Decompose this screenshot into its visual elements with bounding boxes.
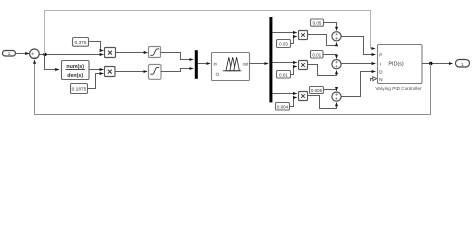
sum S2 [332,32,341,41]
constant 0.004 [276,103,290,111]
inport In1 [3,51,16,57]
wire Product5 to Sum4 bottom [308,96,337,109]
wire error branch up over top to PID u input [45,11,376,55]
svg-text:0.01: 0.01 [312,52,321,57]
product P2 [105,67,116,77]
transfer fcn num(s)/den(s) [62,61,90,80]
wire Product2 to Saturation2 [115,71,147,73]
svg-text:Varying PID Controller: Varying PID Controller [375,86,422,91]
svg-text:0.1875: 0.1875 [72,87,87,93]
wire Product4 to Sum3 bottom [308,65,337,76]
mux Mux [195,50,198,79]
sum S3 [332,60,341,69]
constant 0.03 [277,40,291,48]
wire Product3 to Sum2 bottom [308,35,337,46]
outport Out1 [456,60,470,68]
node junction dot 2 [429,62,432,65]
wire feedback loop [35,60,431,115]
wire 0.05 to Sum2 top [324,23,337,31]
svg-text:0.005: 0.005 [311,88,323,93]
svg-text:out: out [242,61,249,66]
wire TF to Product2 [89,69,103,71]
wire 0.01 lower to Product4 [291,67,297,75]
wire Fuzzy to Demux [250,63,269,65]
wire 0.005 to Sum4 top [324,90,337,91]
wire PID out to outport [422,63,453,65]
node junction dot [43,53,46,56]
svg-text:0.05: 0.05 [313,21,322,26]
sum S1 (error) [30,49,40,59]
wire Demux out3 to Product5 [272,93,296,95]
svg-text:I: I [380,61,381,66]
wire 0.004 to Product5 [290,98,297,107]
unconnected N port stub [371,77,377,81]
product P4 [299,61,308,70]
svg-text:N: N [379,77,382,82]
saturation Sat1 [149,47,161,58]
product P3 [299,31,308,40]
wire In1 to Sum [16,53,30,55]
svg-text:num(s): num(s) [66,64,84,70]
product P5 [299,92,308,101]
wire 0.03 to Product3 [291,37,297,44]
svg-text:0.375: 0.375 [74,40,86,46]
constant 0.01 top [311,51,324,59]
svg-text:P: P [379,52,382,57]
product P1 [105,48,116,58]
wire Sum2 to PID P [341,37,375,55]
wire Demux out2 to Product4 [272,62,296,64]
wire Product1 to Saturation1 [116,52,148,54]
wire Mux to Fuzzy [198,63,210,65]
wire 0.01 top to Sum3 [323,55,337,59]
wire error branch down to transfer fcn [45,55,60,70]
saturation Sat2 [149,65,162,80]
svg-text:PID(s): PID(s) [388,61,403,67]
constant 0.375 [73,38,89,47]
svg-text:1: 1 [461,62,464,68]
svg-text:den(s): den(s) [67,73,83,79]
wire Sum4 to PID D [341,72,375,97]
fuzzy logic controller [212,53,250,81]
wire 0.1875 to Product2 [88,74,104,89]
wire Demux out1 to Product3 [272,32,296,34]
varying PID controller block [375,45,422,92]
demux Demux [269,17,272,102]
svg-text:0.01: 0.01 [279,72,288,77]
wire Sat2 to Mux in2 [161,69,194,72]
wire Sum3 to PID I [341,63,375,65]
wire Sum to junction to Product1 [39,54,103,56]
constant 0.01 lower [277,71,291,79]
constant 0.05 [311,19,324,26]
wire Sat1 to Mux in1 [161,53,194,60]
svg-text:0.03: 0.03 [279,42,288,47]
constant 0.005 [310,87,324,94]
wire 0.375 to Product1 [89,42,104,51]
svg-text:1: 1 [8,51,11,56]
svg-text:0.004: 0.004 [277,104,289,109]
constant 0.1875 [71,84,88,94]
sum S4 [332,92,341,101]
